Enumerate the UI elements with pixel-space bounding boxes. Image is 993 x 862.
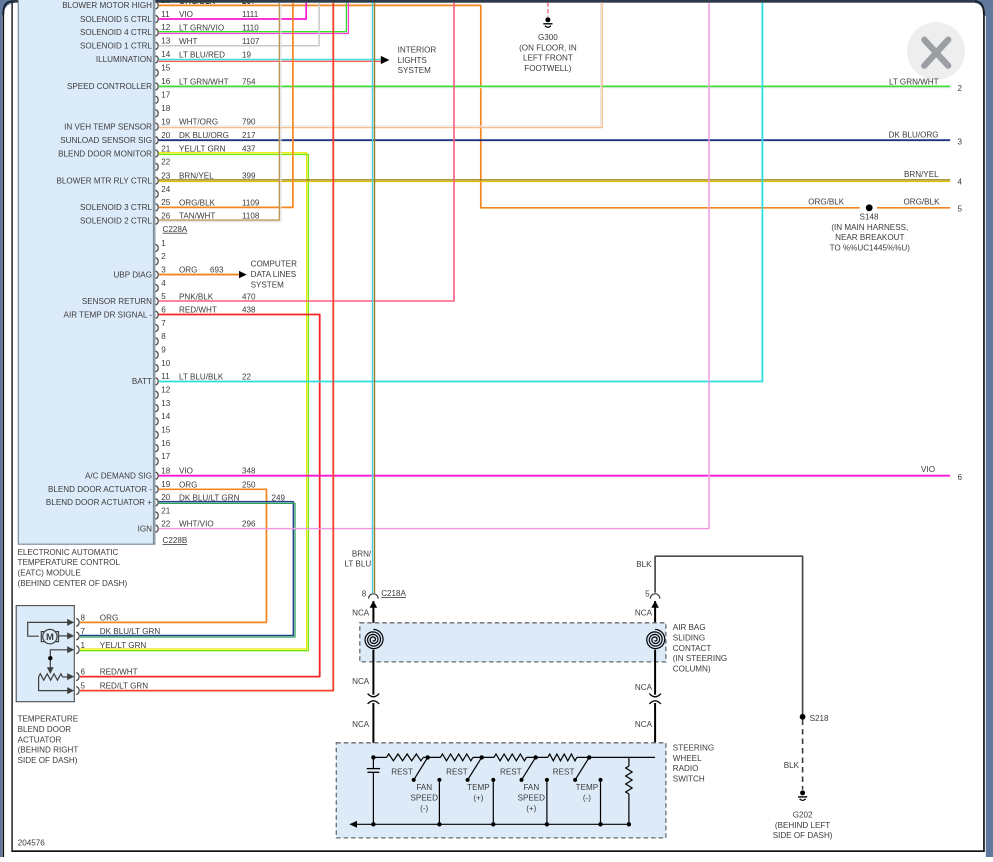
wire LT GRN/VIO 1110 pin12 — [159, 3, 349, 34]
svg-text:REST: REST — [446, 768, 468, 777]
svg-text:WHT: WHT — [179, 37, 197, 46]
svg-text:14: 14 — [161, 50, 171, 59]
svg-text:1108: 1108 — [242, 212, 260, 221]
svg-text:17: 17 — [161, 91, 171, 100]
wire BLK from C218A pin5 to S218 — [636, 556, 802, 717]
svg-text:STEERING: STEERING — [673, 744, 714, 753]
wire LT BLU/RED 19 pin14 to interior lights — [159, 45, 437, 75]
svg-text:1: 1 — [81, 641, 86, 650]
svg-text:16: 16 — [161, 77, 171, 86]
svg-text:1: 1 — [161, 239, 166, 248]
svg-text:SWITCH: SWITCH — [673, 775, 705, 784]
svg-text:TEMPERATURE: TEMPERATURE — [18, 715, 79, 724]
svg-text:13: 13 — [161, 37, 171, 46]
svg-text:BLOWER MTR RLY CTRL: BLOWER MTR RLY CTRL — [57, 176, 153, 185]
svg-text:22: 22 — [161, 519, 171, 528]
svg-text:AIR BAG: AIR BAG — [673, 623, 706, 632]
svg-text:BLEND DOOR ACTUATOR -: BLEND DOOR ACTUATOR - — [48, 485, 152, 494]
svg-text:SPEED: SPEED — [518, 794, 546, 803]
svg-text:14: 14 — [161, 412, 171, 421]
EATC module label — [18, 548, 128, 588]
svg-text:SUNLOAD SENSOR SIG: SUNLOAD SENSOR SIG — [60, 136, 152, 145]
outer right page edge — [983, 12, 985, 851]
svg-text:RED/WHT: RED/WHT — [100, 668, 138, 677]
wire DK BLU/LT GRN 249 pin20 to actuator pin7 — [80, 502, 295, 637]
svg-text:22: 22 — [161, 158, 171, 167]
wire WHT 1107 pin13 — [159, 3, 319, 46]
air bag sliding contact box — [360, 623, 666, 662]
wire ORG/BLK 1109 pin25 — [159, 3, 293, 208]
svg-text:UBP DIAG: UBP DIAG — [113, 271, 152, 280]
wire LT GRN/WHT 754 pin16 to right edge — [159, 77, 963, 93]
svg-text:25: 25 — [161, 198, 171, 207]
inline break right — [649, 694, 661, 704]
svg-text:438: 438 — [242, 306, 256, 315]
EATC left signal labels — [46, 1, 153, 533]
svg-text:WHT/VIO: WHT/VIO — [179, 520, 214, 529]
svg-text:5: 5 — [161, 292, 166, 301]
svg-text:ORG/BLK: ORG/BLK — [179, 198, 216, 207]
page background right blue strip — [986, 0, 993, 857]
wire LT BLU/BLK 22 pin11 — [159, 3, 763, 382]
NCA wire right to switch box — [635, 703, 655, 757]
svg-text:G202: G202 — [793, 811, 813, 820]
svg-text:YEL/LT GRN: YEL/LT GRN — [100, 641, 147, 650]
air bag sliding contact label — [673, 623, 727, 673]
coil right (clockspring) — [647, 629, 665, 648]
svg-text:ILLUMINATION: ILLUMINATION — [96, 55, 152, 64]
svg-text:(BEHIND CENTER OF DASH): (BEHIND CENTER OF DASH) — [18, 579, 128, 588]
svg-text:LIGHTS: LIGHTS — [398, 56, 428, 65]
outer left page edge — [3, 12, 5, 857]
svg-text:IGN: IGN — [138, 524, 153, 533]
svg-text:SOLENOID 1 CTRL: SOLENOID 1 CTRL — [80, 42, 152, 51]
wire PNK/BLK 470 pin5 — [159, 3, 454, 301]
svg-text:24: 24 — [161, 185, 171, 194]
svg-text:DK BLU/ORG: DK BLU/ORG — [179, 131, 229, 140]
svg-text:7: 7 — [81, 627, 86, 636]
actuator pin arcs — [76, 618, 79, 694]
steering wheel radio switch label — [673, 744, 714, 784]
svg-text:LT GRN/WHT: LT GRN/WHT — [179, 77, 229, 86]
svg-text:20: 20 — [161, 493, 171, 502]
svg-text:(EATC) MODULE: (EATC) MODULE — [18, 569, 82, 578]
svg-text:BLOWER MOTOR HIGH: BLOWER MOTOR HIGH — [62, 1, 152, 10]
svg-text:437: 437 — [242, 145, 256, 154]
actuator wiper branch to pin1 — [47, 646, 74, 674]
wire BRN/YEL 399 pin23 to right edge — [159, 170, 963, 186]
inner left frame line — [11, 2, 12, 852]
steering wheel radio switch box — [336, 743, 666, 838]
splice S148 — [808, 197, 962, 252]
ground G300 — [519, 17, 577, 73]
svg-text:SOLENOID 5 CTRL: SOLENOID 5 CTRL — [80, 15, 152, 24]
svg-text:LT GRN/WHT: LT GRN/WHT — [889, 77, 939, 86]
svg-text:ORG/BLK: ORG/BLK — [808, 197, 845, 206]
connector C218A pin5 — [645, 589, 660, 598]
bottom frame line — [11, 850, 584, 852]
svg-text:(IN STEERING: (IN STEERING — [673, 654, 727, 663]
svg-text:(+): (+) — [526, 804, 536, 813]
svg-text:22: 22 — [242, 372, 252, 381]
page background left blue strip — [0, 0, 2, 857]
svg-text:LT BLU/BLK: LT BLU/BLK — [179, 372, 224, 381]
wire VIO 1111 pin11 — [159, 3, 306, 19]
svg-text:6: 6 — [161, 306, 166, 315]
svg-text:(+): (+) — [473, 794, 483, 803]
svg-text:NCA: NCA — [352, 677, 370, 686]
svg-text:(-): (-) — [420, 804, 428, 813]
svg-text:8: 8 — [161, 332, 166, 341]
right vertical resistor in switch — [626, 757, 632, 824]
ground G300 dashed lead — [547, 3, 549, 17]
switch arms REST — [412, 757, 590, 782]
svg-text:12: 12 — [161, 23, 171, 32]
NCA wire left below air bag box — [352, 650, 373, 695]
svg-text:COLUMN): COLUMN) — [673, 664, 711, 673]
svg-text:BRN/: BRN/ — [352, 549, 372, 558]
svg-text:SPEED: SPEED — [410, 794, 438, 803]
svg-text:12: 12 — [161, 386, 171, 395]
svg-text:TO %%UC1445%%U): TO %%UC1445%%U) — [830, 243, 911, 252]
wire WHT/ORG 790 pin19 — [159, 3, 602, 128]
wire ORG 693 pin3 to computer data lines — [159, 260, 297, 290]
svg-text:IN VEH TEMP SENSOR: IN VEH TEMP SENSOR — [64, 122, 152, 131]
svg-text:AIR TEMP DR SIGNAL -: AIR TEMP DR SIGNAL - — [64, 311, 153, 320]
wire WHT/VIO 296 pin22 — [159, 3, 709, 529]
svg-text:693: 693 — [210, 266, 224, 275]
connector C218A pin8 — [362, 589, 407, 598]
svg-text:NCA: NCA — [635, 609, 653, 618]
svg-text:REST: REST — [553, 768, 575, 777]
svg-text:790: 790 — [242, 118, 256, 127]
svg-text:PNK/BLK: PNK/BLK — [179, 292, 214, 301]
svg-text:4: 4 — [958, 178, 963, 187]
svg-text:SYSTEM: SYSTEM — [398, 66, 432, 75]
svg-text:23: 23 — [161, 171, 171, 180]
svg-text:RED/LT GRN: RED/LT GRN — [100, 682, 148, 691]
svg-text:TEMPERATURE CONTROL: TEMPERATURE CONTROL — [18, 558, 121, 567]
svg-text:DK BLU/LT GRN: DK BLU/LT GRN — [100, 627, 161, 636]
svg-text:SIDE OF DASH): SIDE OF DASH) — [773, 831, 833, 840]
svg-text:ORG: ORG — [179, 266, 197, 275]
svg-text:754: 754 — [242, 77, 256, 86]
svg-text:SYSTEM: SYSTEM — [251, 280, 285, 289]
capacitor in switch — [367, 757, 380, 824]
svg-text:CONTACT: CONTACT — [673, 644, 712, 653]
svg-text:A/C DEMAND SIG: A/C DEMAND SIG — [85, 472, 152, 481]
wire TAN/WHT 1108 pin26 — [159, 3, 281, 222]
splice S218 — [800, 714, 829, 723]
switch top rail with resistors — [373, 754, 655, 761]
svg-text:WHT/ORG: WHT/ORG — [179, 118, 218, 127]
svg-text:1109: 1109 — [242, 198, 260, 207]
wire BLK dashed S218 to G202 — [784, 720, 803, 790]
svg-text:SENSOR RETURN: SENSOR RETURN — [82, 297, 152, 306]
svg-text:11: 11 — [161, 372, 170, 381]
svg-text:(-): (-) — [583, 794, 591, 803]
connector pin numbers C228B — [161, 239, 171, 529]
svg-text:NEAR BREAKOUT: NEAR BREAKOUT — [835, 233, 904, 242]
svg-text:(BEHIND LEFT: (BEHIND LEFT — [775, 821, 830, 830]
svg-text:BATT: BATT — [132, 377, 152, 386]
svg-text:17: 17 — [161, 452, 171, 461]
svg-text:LEFT FRONT: LEFT FRONT — [523, 54, 573, 63]
EATC module box — [18, 0, 155, 544]
svg-text:TEMP: TEMP — [467, 783, 489, 792]
wire VIO 348 pin18 to right edge — [159, 465, 963, 482]
svg-text:21: 21 — [161, 144, 171, 153]
svg-text:BLEND DOOR: BLEND DOOR — [18, 725, 72, 734]
svg-text:TAN/WHT: TAN/WHT — [179, 212, 215, 221]
svg-text:BRN/YEL: BRN/YEL — [904, 170, 939, 179]
svg-text:S218: S218 — [810, 714, 829, 723]
svg-text:348: 348 — [242, 467, 256, 476]
svg-text:M: M — [46, 631, 54, 642]
svg-text:VIO: VIO — [921, 465, 935, 474]
top-left outer corner blue — [0, 0, 17, 17]
svg-text:BLK: BLK — [636, 560, 652, 569]
svg-text:COMPUTER: COMPUTER — [251, 260, 297, 269]
svg-text:SOLENOID 3 CTRL: SOLENOID 3 CTRL — [80, 203, 152, 212]
svg-text:VIO: VIO — [179, 467, 193, 476]
svg-text:ORG: ORG — [100, 613, 118, 622]
svg-text:11: 11 — [161, 10, 170, 19]
svg-text:BLEND DOOR ACTUATOR +: BLEND DOOR ACTUATOR + — [46, 498, 152, 507]
wire DK BLU/ORG 217 pin20 to right edge — [159, 130, 963, 146]
actuator pin numbers — [81, 613, 86, 690]
wire ORG/BLK 207 pin10 to S148 — [159, 5, 950, 207]
wire YEL/LT GRN 437 pin21 to actuator pin1 — [80, 153, 308, 651]
svg-text:20: 20 — [161, 131, 171, 140]
svg-text:19: 19 — [161, 480, 171, 489]
wire ORG 250 pin19 to actuator pin8 — [80, 489, 267, 622]
top-right corner curve — [975, 1, 984, 14]
svg-text:REST: REST — [500, 768, 522, 777]
svg-text:ELECTRONIC AUTOMATIC: ELECTRONIC AUTOMATIC — [18, 548, 119, 557]
svg-text:FAN: FAN — [523, 783, 539, 792]
svg-text:(ON FLOOR, IN: (ON FLOOR, IN — [519, 43, 577, 52]
svg-text:15: 15 — [161, 64, 171, 73]
svg-text:19: 19 — [161, 117, 171, 126]
wire RED/WHT 438 pin6 to actuator pin6 — [80, 315, 320, 677]
svg-text:3: 3 — [958, 138, 963, 147]
svg-text:SOLENOID 2 CTRL: SOLENOID 2 CTRL — [80, 217, 152, 226]
svg-text:G300: G300 — [538, 33, 558, 42]
svg-text:ORG: ORG — [179, 480, 197, 489]
svg-text:21: 21 — [161, 506, 171, 515]
contact stubs — [437, 778, 602, 824]
svg-text:BLEND DOOR MONITOR: BLEND DOOR MONITOR — [58, 149, 152, 158]
EATC connector spine — [153, 0, 154, 544]
svg-text:2: 2 — [161, 252, 166, 261]
svg-text:296: 296 — [242, 520, 256, 529]
svg-text:FOOTWELL): FOOTWELL) — [524, 64, 572, 73]
svg-text:9: 9 — [161, 346, 166, 355]
svg-text:204576: 204576 — [18, 839, 46, 848]
svg-text:13: 13 — [161, 399, 171, 408]
svg-text:C218A: C218A — [381, 589, 406, 598]
svg-text:6: 6 — [81, 668, 86, 677]
top border band — [11, 0, 977, 3]
svg-text:NCA: NCA — [635, 683, 653, 692]
svg-text:15: 15 — [161, 426, 171, 435]
NCA wire right below air bag box — [635, 650, 655, 695]
connector pin numbers C228A — [161, 0, 171, 221]
svg-text:4: 4 — [161, 279, 166, 288]
NCA wire below C218A pin8 — [352, 601, 377, 630]
svg-text:(IN MAIN HARNESS,: (IN MAIN HARNESS, — [831, 223, 908, 232]
svg-text:5: 5 — [81, 682, 86, 691]
ground G202 — [773, 790, 833, 840]
svg-text:NCA: NCA — [352, 609, 370, 618]
svg-text:1107: 1107 — [242, 37, 260, 46]
NCA wire below C218A pin5 — [635, 601, 659, 630]
svg-text:8: 8 — [362, 590, 367, 599]
REST labels — [391, 768, 574, 777]
svg-text:18: 18 — [161, 467, 171, 476]
svg-text:3: 3 — [161, 266, 166, 275]
actuator label — [18, 715, 79, 765]
svg-text:16: 16 — [161, 439, 171, 448]
wire BRN/LT BLU to C218A pin8 — [344, 3, 374, 593]
svg-text:10: 10 — [161, 0, 171, 5]
switch position labels — [410, 783, 598, 813]
svg-text:26: 26 — [161, 212, 171, 221]
svg-text:YEL/LT GRN: YEL/LT GRN — [179, 145, 226, 154]
top-right outer corner blue — [972, 0, 993, 17]
svg-text:217: 217 — [242, 131, 256, 140]
svg-text:WHEEL: WHEEL — [673, 754, 702, 763]
svg-text:VIO: VIO — [179, 10, 193, 19]
svg-text:INTERIOR: INTERIOR — [398, 45, 437, 54]
svg-text:1111: 1111 — [242, 10, 259, 19]
switch bottom rail — [349, 821, 631, 828]
svg-text:NCA: NCA — [352, 720, 370, 729]
svg-text:6: 6 — [958, 473, 963, 482]
svg-text:10: 10 — [161, 359, 171, 368]
actuator motor M1 — [28, 619, 74, 644]
svg-text:C228B: C228B — [163, 536, 188, 545]
temperature blend door actuator box — [16, 606, 74, 702]
coil left (clockspring) — [365, 629, 383, 648]
svg-text:SIDE OF DASH): SIDE OF DASH) — [18, 756, 78, 765]
svg-text:7: 7 — [161, 319, 166, 328]
svg-text:LT BLU/RED: LT BLU/RED — [179, 50, 225, 59]
svg-text:REST: REST — [391, 768, 413, 777]
actuator wire name labels — [100, 613, 161, 690]
svg-text:RED/WHT: RED/WHT — [179, 306, 217, 315]
svg-text:C228A: C228A — [163, 225, 188, 234]
svg-text:SOLENOID 4 CTRL: SOLENOID 4 CTRL — [80, 28, 152, 37]
svg-text:S148: S148 — [860, 213, 879, 222]
svg-text:SLIDING: SLIDING — [673, 634, 705, 643]
connector C228A/C228B pin arcs — [156, 2, 159, 532]
svg-text:5: 5 — [958, 204, 963, 213]
NCA wire left to switch box — [352, 703, 373, 757]
svg-text:RADIO: RADIO — [673, 764, 699, 773]
top-left corner curve — [3, 1, 12, 14]
svg-text:LT BLU: LT BLU — [344, 560, 371, 569]
svg-text:8: 8 — [81, 613, 86, 622]
svg-text:TEMP: TEMP — [576, 783, 598, 792]
svg-text:19: 19 — [242, 50, 252, 59]
rail junction dots — [371, 755, 591, 759]
svg-text:18: 18 — [161, 104, 171, 113]
svg-text:(BEHIND RIGHT: (BEHIND RIGHT — [18, 746, 79, 755]
svg-text:ACTUATOR: ACTUATOR — [18, 735, 62, 744]
wire RED/LT GRN to actuator pin5 — [80, 3, 333, 691]
svg-text:SPEED CONTROLLER: SPEED CONTROLLER — [67, 82, 152, 91]
svg-text:5: 5 — [645, 589, 650, 598]
close button — [907, 22, 965, 80]
svg-text:FAN: FAN — [416, 783, 432, 792]
actuator potentiometer R — [39, 673, 75, 694]
svg-text:NCA: NCA — [635, 720, 653, 729]
svg-text:250: 250 — [242, 480, 256, 489]
svg-text:2: 2 — [958, 84, 963, 93]
wire name and circuit number labels — [161, 0, 285, 529]
svg-text:DATA LINES: DATA LINES — [251, 270, 297, 279]
svg-text:DK BLU/ORG: DK BLU/ORG — [889, 130, 939, 139]
svg-text:BLK: BLK — [784, 761, 800, 770]
inline break left — [368, 694, 380, 704]
svg-text:ORG/BLK: ORG/BLK — [904, 197, 941, 206]
svg-text:470: 470 — [242, 292, 256, 301]
